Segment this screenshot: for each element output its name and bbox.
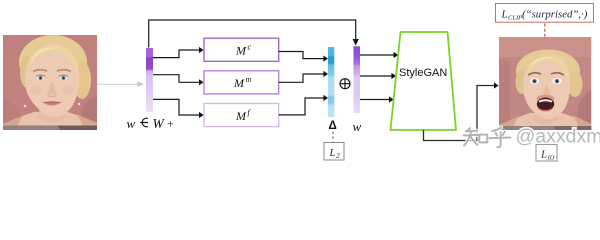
svg-text:@axxdxm: @axxdxm: [516, 126, 600, 148]
label w: [353, 119, 362, 134]
svg-text:w: w: [127, 116, 136, 131]
svg-text:Δ: Δ: [329, 120, 337, 132]
svg-text:ID: ID: [547, 155, 555, 162]
wire: bar1 to Mm: [153, 75, 204, 86]
svg-text:(“surprised”,·): (“surprised”,·): [522, 8, 588, 20]
mapper Mf: [204, 104, 279, 127]
svg-text:M: M: [233, 76, 245, 90]
oplus: [340, 79, 350, 89]
dashed link image to ID loss: [544, 130, 546, 144]
svg-text:M: M: [235, 44, 247, 58]
svg-text:m: m: [246, 75, 252, 84]
label Delta: [329, 120, 337, 132]
svg-text:L: L: [501, 8, 508, 20]
wire: w bar to StyleGAN 1: [360, 52, 398, 58]
wire: Mf to delta bar: [279, 95, 328, 115]
svg-text:W: W: [153, 116, 166, 131]
svg-text:M: M: [235, 109, 247, 123]
CLIP loss box: [496, 4, 594, 23]
svg-text:2: 2: [336, 151, 340, 160]
output image: [499, 37, 591, 130]
input image: [3, 35, 97, 130]
svg-text:StyleGAN: StyleGAN: [399, 67, 447, 79]
svg-text:L: L: [540, 149, 547, 161]
wire: w bar to StyleGAN 3: [360, 96, 394, 102]
delta bar: [328, 47, 334, 117]
mapper Mm: [204, 71, 279, 94]
ID loss box: [536, 145, 557, 162]
svg-text:CLIP: CLIP: [508, 14, 522, 21]
svg-text:L: L: [329, 147, 336, 159]
wire: bar1 to Mf: [153, 99, 204, 118]
grey input arrow: [97, 83, 144, 85]
wire: Mc to delta bar: [279, 52, 328, 62]
dashed link delta to L2: [332, 132, 334, 142]
dashed link CLIP to image: [544, 24, 546, 37]
wire: w bar to StyleGAN 2: [360, 73, 396, 79]
svg-text:c: c: [248, 43, 252, 52]
wire: StyleGAN to output image: [424, 82, 499, 140]
svg-text:w: w: [353, 119, 362, 134]
wire: bypass from w∈W+ top to w bar: [149, 20, 359, 48]
label w ∈ W+: [127, 116, 175, 131]
mapper Mc: [204, 38, 279, 61]
wire: Mm to delta bar: [279, 71, 328, 82]
watermark zhihu: [464, 126, 600, 148]
wire: bar1 to Mc: [153, 47, 204, 58]
loss box L2: [324, 143, 344, 161]
svg-text:+: +: [167, 117, 174, 131]
StyleGAN generator: [391, 32, 457, 130]
latent bar w: [354, 46, 361, 113]
latent bar w∈W+: [146, 48, 153, 112]
